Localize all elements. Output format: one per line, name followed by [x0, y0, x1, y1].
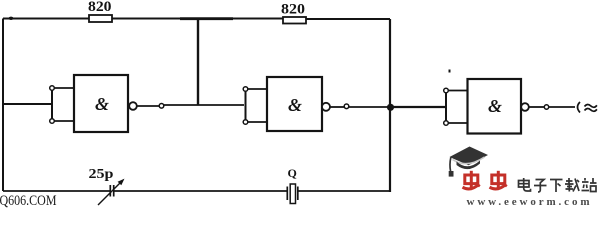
wire input bar of gate U3	[445, 93, 447, 122]
pin input circle U3 bottom	[444, 121, 449, 126]
logo graduation cap board	[449, 147, 488, 177]
svg-text:&: &	[488, 96, 502, 116]
pin terminal circle after U2	[344, 104, 349, 109]
wire to output terminal	[549, 106, 575, 108]
wire node B from U2 to junction	[349, 106, 390, 108]
char xia	[550, 180, 563, 193]
svg-text:820: 820	[88, 0, 112, 15]
resistor R2	[283, 17, 306, 24]
NAND gate U1	[74, 75, 128, 132]
logo cap tassel	[449, 158, 452, 172]
wire node A from U1 to U2 input	[164, 104, 244, 106]
wire input stub U1 top	[54, 87, 74, 89]
wire bottom rail middle segment	[114, 190, 287, 192]
crystal Q body	[290, 184, 295, 204]
inversion bubble U2 output	[322, 103, 330, 111]
svg-text:25p: 25p	[89, 167, 114, 182]
wire U3 output	[529, 106, 544, 108]
wire bottom rail left segment	[3, 190, 110, 192]
logo character chong 1	[463, 171, 480, 189]
svg-text:www.eeworm.com: www.eeworm.com	[467, 196, 590, 208]
wire input stub U3 top	[448, 90, 467, 92]
pin terminal circle after U3	[544, 105, 548, 109]
wire input feed to gate U1	[3, 103, 51, 105]
wire U1 output	[137, 105, 159, 107]
output terminal arc	[578, 102, 581, 113]
pin input circle U1 bottom	[50, 119, 55, 124]
logo cap highlight	[453, 157, 485, 164]
svg-text:Q: Q	[288, 166, 297, 180]
svg-text:820: 820	[281, 2, 305, 18]
inversion bubble U3 output	[521, 103, 529, 111]
char dian	[519, 178, 531, 191]
wire node B to U3 input	[390, 106, 445, 108]
wire left vertical rail	[2, 19, 4, 192]
wire input stub U2 bottom	[248, 121, 267, 123]
pin input circle U1 top	[50, 86, 55, 91]
wire bottom rail right segment	[299, 190, 391, 192]
output waveform symbol	[585, 104, 597, 107]
inversion bubble U1 output	[129, 102, 137, 110]
capacitor C1 plate left	[109, 185, 111, 197]
wire input bar of gate U1	[51, 90, 53, 119]
junction node B	[387, 104, 394, 111]
svg-text:&: &	[288, 95, 302, 115]
NAND gate U3	[468, 79, 522, 134]
pin input circle U2 bottom	[243, 120, 248, 125]
char zi	[534, 180, 547, 193]
speck artifact	[449, 70, 451, 73]
resistor R1	[89, 15, 112, 22]
svg-text:Q606.COM: Q606.COM	[0, 193, 57, 208]
pin input circle U3 top	[444, 88, 449, 93]
capacitor C1 plate right	[113, 185, 115, 197]
wire input stub U2 top	[248, 88, 267, 90]
logo cap base	[457, 161, 481, 170]
capacitor C1 variable arrow	[98, 182, 122, 206]
wire top rail right segment	[306, 18, 390, 20]
wire input stub U1 bottom	[54, 120, 74, 122]
wire top rail middle segment	[112, 18, 283, 20]
crystal Q plate left	[286, 187, 288, 201]
char zhan	[582, 178, 597, 192]
NAND gate U2	[267, 77, 322, 131]
svg-text:&: &	[95, 94, 109, 114]
logo text dian zi xia zai zhan	[519, 178, 597, 192]
wire input stub U3 bottom	[448, 122, 467, 124]
crystal Q plate right	[297, 187, 299, 201]
wire top rail left segment	[3, 18, 89, 20]
pin input circle U2 top	[243, 87, 248, 92]
wire input bar of gate U2	[245, 91, 247, 120]
wire feedback drop from top rail to node A	[197, 19, 199, 106]
pin terminal circle after U1	[159, 104, 164, 109]
logo character chong 2	[490, 171, 507, 189]
blob artifact on top rail	[9, 17, 14, 20]
wire U2 output	[330, 106, 344, 108]
wire right vertical rail	[389, 19, 391, 192]
char zai	[565, 178, 579, 192]
